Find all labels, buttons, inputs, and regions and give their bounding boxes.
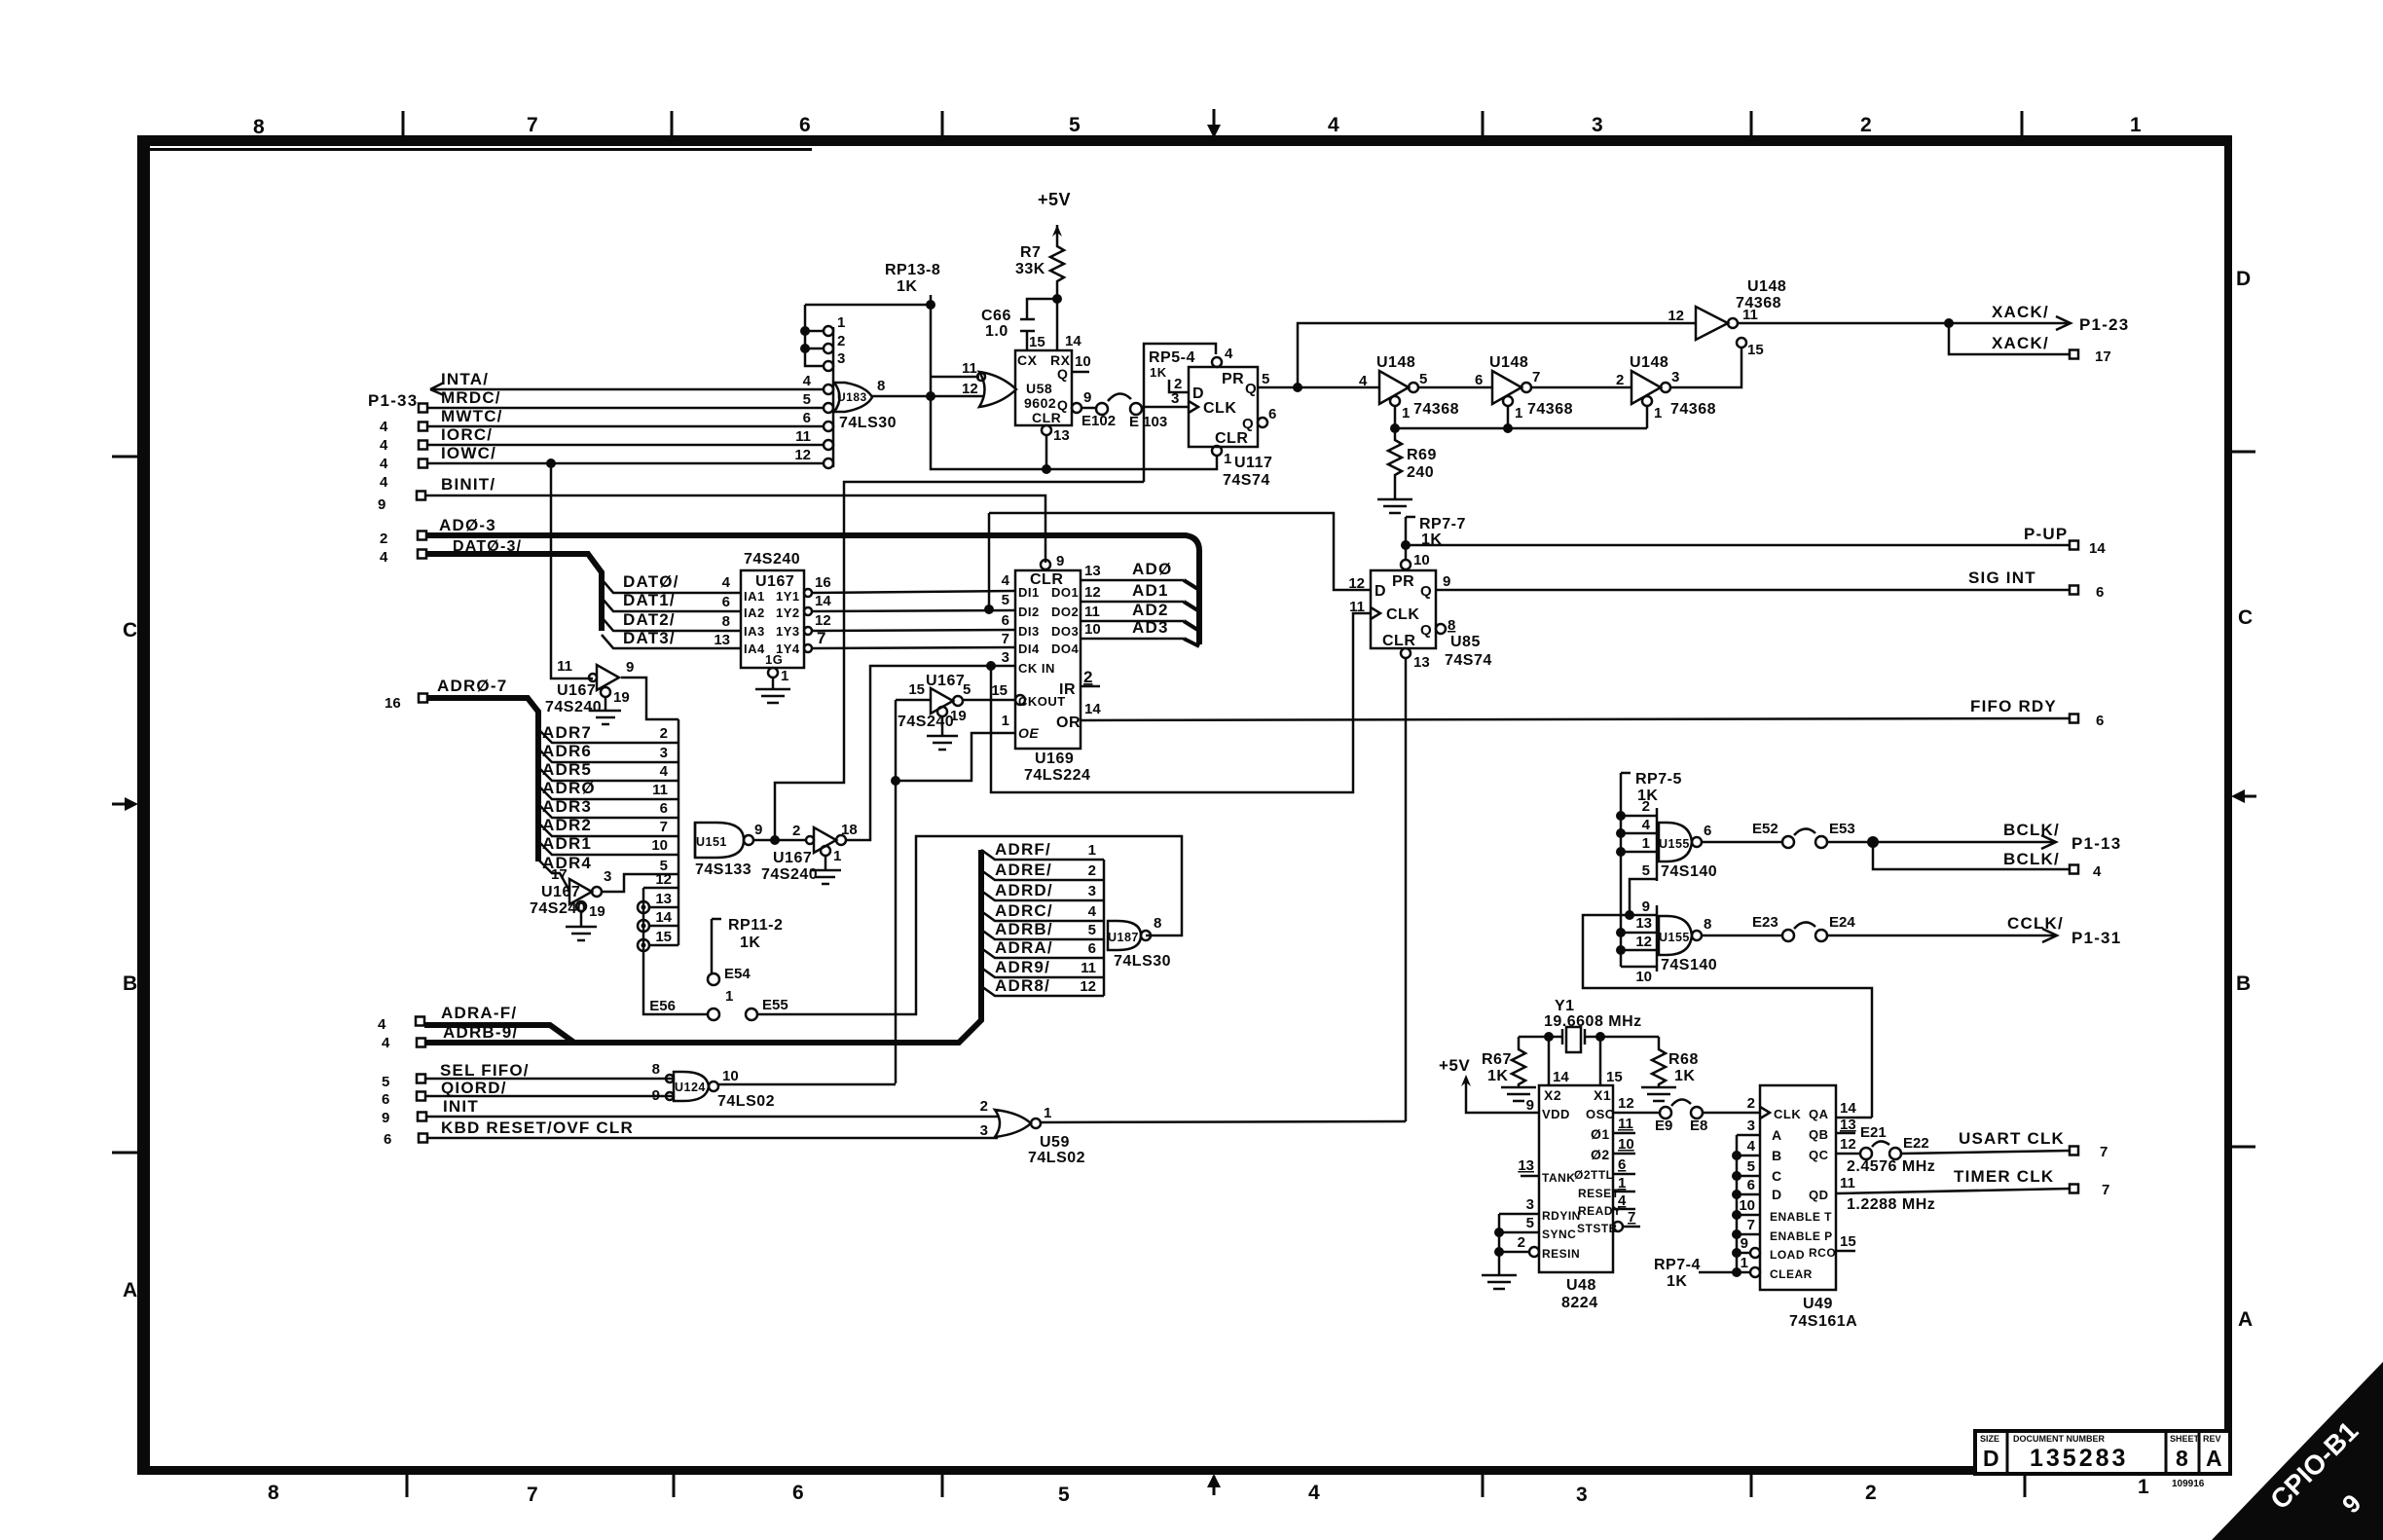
- svg-text:E55: E55: [762, 997, 788, 1013]
- AD diagonal joins to bus: [1184, 580, 1199, 646]
- svg-text:8: 8: [722, 613, 730, 630]
- svg-text:C: C: [123, 619, 137, 642]
- zone tick top 2/1: [2021, 111, 2024, 136]
- svg-text:15: 15: [1029, 334, 1045, 350]
- svg-text:6: 6: [1088, 940, 1096, 957]
- svg-text:STSTB: STSTB: [1577, 1222, 1618, 1235]
- svg-text:3: 3: [837, 350, 845, 367]
- wire E103 to U117 CLK: [1142, 406, 1189, 409]
- svg-text:DI2: DI2: [1018, 605, 1040, 619]
- ground U48: [1482, 1275, 1517, 1289]
- svg-text:14: 14: [655, 909, 672, 926]
- svg-text:4: 4: [1328, 114, 1339, 136]
- jumper arc: [1794, 828, 1815, 835]
- stub pin 10: [1621, 966, 1657, 969]
- svg-text:RP7-7: RP7-7: [1419, 516, 1466, 532]
- svg-text:3: 3: [1576, 1484, 1588, 1506]
- svg-text:10: 10: [1075, 353, 1091, 370]
- gate U187 74LS30: [1108, 921, 1141, 950]
- svg-text:ADR1: ADR1: [542, 834, 592, 853]
- svg-text:U167: U167: [773, 850, 812, 866]
- svg-text:X1: X1: [1594, 1087, 1611, 1103]
- inverter U167 (sel): [814, 827, 836, 853]
- svg-text:2: 2: [1642, 798, 1650, 815]
- wire SEL FIFO to U124 pin8: [425, 1078, 674, 1081]
- svg-text:E8: E8: [1690, 1118, 1707, 1134]
- svg-text:D: D: [2236, 268, 2251, 290]
- svg-text:4: 4: [1618, 1192, 1627, 1209]
- corner triangle black: [2212, 1362, 2383, 1540]
- zone tick bottom 3/2: [1750, 1474, 1753, 1497]
- svg-text:U58: U58: [1026, 381, 1052, 396]
- svg-text:15: 15: [655, 929, 672, 945]
- svg-text:ADRB-9/: ADRB-9/: [443, 1023, 518, 1042]
- jumper E55: [746, 1008, 757, 1020]
- TANK pin 13: [1521, 1175, 1539, 1178]
- zone arrow left center: [112, 803, 128, 806]
- svg-text:8: 8: [253, 116, 265, 138]
- svg-text:6: 6: [384, 1131, 391, 1148]
- SYNC pin 5: [1499, 1231, 1539, 1234]
- svg-text:AD1: AD1: [1132, 581, 1169, 600]
- gate U59 74LS02: [995, 1110, 1031, 1137]
- svg-text:BCLK/: BCLK/: [2003, 821, 2060, 839]
- zone tick top 7/6: [671, 111, 674, 136]
- jumper E21: [1860, 1148, 1872, 1159]
- svg-text:U48: U48: [1566, 1277, 1596, 1294]
- svg-text:P1-23: P1-23: [2079, 315, 2129, 334]
- U117 CLR pin 1: [1212, 446, 1222, 456]
- stub pin 4: [1621, 832, 1657, 835]
- border frame top: [137, 135, 2231, 146]
- svg-text:15: 15: [908, 681, 925, 698]
- wire IOWC branch down to U167 inverter input: [551, 463, 593, 678]
- svg-text:U167: U167: [926, 673, 965, 689]
- svg-text:IA4: IA4: [744, 642, 765, 656]
- svg-text:DAT1/: DAT1/: [623, 591, 676, 609]
- svg-text:2: 2: [1860, 114, 1872, 136]
- svg-text:R69: R69: [1407, 447, 1437, 463]
- svg-text:U148: U148: [1630, 354, 1668, 371]
- svg-text:3: 3: [1088, 883, 1096, 899]
- svg-text:9: 9: [1526, 1097, 1534, 1114]
- zone tick top 4/3: [1482, 111, 1485, 136]
- U167 outputs to U169: [804, 589, 812, 597]
- svg-text:CLK: CLK: [1203, 400, 1236, 417]
- wire OE feed from U124: [896, 700, 1015, 1083]
- svg-text:10: 10: [1739, 1197, 1755, 1214]
- svg-text:P-UP: P-UP: [2024, 525, 2068, 543]
- svg-text:5: 5: [1058, 1484, 1070, 1506]
- wire CLK feed: [991, 613, 1371, 792]
- jumper E53: [1815, 836, 1827, 848]
- svg-text:IA2: IA2: [744, 605, 765, 620]
- svg-text:6: 6: [1475, 372, 1483, 388]
- svg-text:IR: IR: [1059, 681, 1076, 698]
- svg-text:15: 15: [1747, 342, 1764, 358]
- svg-text:4: 4: [1642, 817, 1651, 833]
- wire E55 to U187 out: [757, 836, 1182, 1014]
- title block outline: [1975, 1431, 2230, 1474]
- svg-text:8: 8: [1154, 915, 1161, 932]
- svg-text:5: 5: [1002, 592, 1009, 608]
- jumper E23: [1782, 930, 1794, 941]
- U58 CLR pin 13: [1042, 425, 1051, 435]
- svg-text:D: D: [1772, 1187, 1782, 1202]
- svg-text:DAT3/: DAT3/: [623, 629, 676, 647]
- svg-text:8: 8: [877, 378, 885, 394]
- wire to U58 pin 14: [1056, 299, 1059, 350]
- wire ckout: [963, 699, 1015, 702]
- svg-text:4: 4: [380, 456, 388, 472]
- wire Q9 to E102: [1082, 407, 1097, 410]
- stub CLEAR pin 1: [1750, 1267, 1760, 1277]
- svg-text:5: 5: [1747, 1158, 1755, 1175]
- U85 CLR pin 13: [1401, 648, 1411, 658]
- svg-text:DO4: DO4: [1051, 642, 1080, 656]
- svg-text:74S140: 74S140: [1661, 863, 1717, 880]
- svg-text:ADRD/: ADRD/: [995, 881, 1053, 899]
- zone tick left D/C: [112, 456, 138, 458]
- svg-text:E21: E21: [1860, 1124, 1887, 1141]
- svg-text:74S240: 74S240: [545, 699, 602, 715]
- svg-text:1Y2: 1Y2: [776, 605, 800, 620]
- svg-text:10: 10: [1413, 552, 1430, 568]
- svg-text:MRDC/: MRDC/: [441, 388, 501, 407]
- svg-text:3: 3: [604, 868, 611, 885]
- svg-text:U151: U151: [696, 835, 727, 849]
- svg-text:74LS224: 74LS224: [1024, 767, 1090, 784]
- svg-text:+5V: +5V: [1038, 190, 1071, 209]
- svg-text:6: 6: [799, 114, 811, 136]
- svg-text:9: 9: [1443, 573, 1450, 590]
- svg-text:Q: Q: [1420, 583, 1432, 600]
- svg-text:9: 9: [378, 496, 385, 513]
- svg-text:74S133: 74S133: [695, 862, 752, 878]
- stub B pin 4: [1737, 1155, 1760, 1157]
- svg-text:CLR: CLR: [1215, 430, 1248, 447]
- svg-text:74S74: 74S74: [1445, 652, 1492, 669]
- gate U155 a: [1659, 823, 1692, 862]
- wire IORC to U183 pin11: [427, 444, 823, 447]
- svg-text:U155: U155: [1659, 837, 1690, 851]
- bus ADRB-9 thick: [425, 850, 981, 1043]
- border frame left: [137, 135, 150, 1475]
- svg-text:ENABLE P: ENABLE P: [1770, 1229, 1833, 1243]
- svg-text:18: 18: [841, 822, 858, 838]
- junction CKIN: [986, 661, 996, 671]
- svg-text:QD: QD: [1809, 1188, 1829, 1202]
- svg-text:Q: Q: [1420, 622, 1432, 639]
- wire 3 to bubble15: [1670, 348, 1741, 387]
- svg-text:5: 5: [1262, 371, 1269, 387]
- svg-text:7: 7: [527, 114, 538, 136]
- gate U155 a input rail: [1656, 808, 1659, 881]
- svg-text:240: 240: [1407, 464, 1434, 481]
- svg-text:BINIT/: BINIT/: [441, 475, 495, 494]
- svg-text:AD2: AD2: [1132, 601, 1169, 619]
- svg-text:109916: 109916: [2172, 1479, 2205, 1489]
- svg-text:C: C: [2238, 606, 2253, 629]
- svg-text:ADR5: ADR5: [542, 760, 592, 779]
- svg-text:DI1: DI1: [1018, 585, 1040, 600]
- fifo U169 74LS224: [1015, 570, 1081, 749]
- svg-text:13: 13: [1053, 427, 1070, 444]
- svg-text:6: 6: [792, 1482, 804, 1504]
- svg-text:CLR: CLR: [1032, 410, 1061, 425]
- wire RP13-8 rail to pins123: [805, 304, 931, 307]
- svg-text:15: 15: [1840, 1233, 1856, 1250]
- svg-text:SHEET: SHEET: [2170, 1434, 2200, 1444]
- svg-text:9: 9: [1083, 389, 1091, 406]
- svg-text:12: 12: [1618, 1095, 1634, 1112]
- stub LOAD pin 9: [1750, 1248, 1760, 1258]
- one-shot U58 9602: [1015, 350, 1072, 425]
- svg-text:5: 5: [1419, 371, 1427, 387]
- svg-text:4: 4: [380, 419, 388, 435]
- U169 IR pin 2: [1081, 685, 1100, 688]
- svg-text:1: 1: [1044, 1105, 1051, 1121]
- svg-text:15: 15: [991, 682, 1008, 699]
- svg-text:1: 1: [1088, 842, 1096, 859]
- svg-text:CLEAR: CLEAR: [1770, 1267, 1813, 1281]
- svg-text:6: 6: [803, 410, 811, 426]
- stub D pin 6: [1737, 1193, 1760, 1196]
- svg-text:Q: Q: [1242, 416, 1254, 432]
- wire U151 net to RP5-4: [775, 482, 1144, 840]
- svg-text:USART CLK: USART CLK: [1959, 1129, 2065, 1148]
- svg-text:74S240: 74S240: [744, 551, 800, 568]
- node XACK/ 17: [1949, 323, 2070, 354]
- wire U151 out to inverter: [753, 839, 806, 842]
- border frame right: [2224, 135, 2232, 1475]
- svg-text:DATØ/: DATØ/: [623, 572, 679, 591]
- wire KBD RESET to U59 pin3: [427, 1137, 998, 1140]
- svg-text:6: 6: [1747, 1177, 1755, 1193]
- svg-text:12: 12: [794, 447, 811, 463]
- svg-text:RP7-5: RP7-5: [1635, 771, 1682, 788]
- title block divider docnum/sheet: [2165, 1431, 2168, 1474]
- svg-text:2: 2: [1518, 1234, 1525, 1251]
- wire D feed: [989, 513, 1371, 590]
- svg-text:U167: U167: [557, 682, 596, 699]
- svg-text:C66: C66: [981, 308, 1011, 324]
- resistor RP11-2 1K: [712, 919, 721, 973]
- wire to U58 gate input 11: [931, 376, 979, 379]
- U117 Qbar pin 6: [1258, 418, 1267, 427]
- svg-text:Q: Q: [1057, 366, 1068, 382]
- gate U124 74LS02: [674, 1072, 709, 1101]
- inverter U148 6-7: [1492, 371, 1521, 404]
- svg-text:MWTC/: MWTC/: [441, 407, 503, 425]
- wire 13/14/15 rail to E56: [643, 888, 708, 1014]
- svg-text:XACK/: XACK/: [1992, 303, 2049, 321]
- svg-text:1: 1: [833, 848, 841, 864]
- wire 7 to 2: [1531, 386, 1631, 389]
- svg-text:P1-31: P1-31: [2071, 929, 2121, 947]
- svg-text:RP13-8: RP13-8: [885, 262, 940, 278]
- junction XACK: [1944, 318, 1954, 328]
- svg-text:D: D: [1983, 1446, 1999, 1471]
- U48 phi1 pin 11: [1613, 1132, 1635, 1135]
- U117 PR pin 4: [1212, 357, 1222, 367]
- junction pin9: [1625, 910, 1634, 920]
- svg-text:DO1: DO1: [1051, 585, 1079, 600]
- svg-text:P1-13: P1-13: [2071, 834, 2121, 853]
- svg-text:U183: U183: [837, 390, 867, 404]
- junction BCLK: [1867, 836, 1879, 848]
- node USART CLK: [1901, 1151, 2070, 1154]
- pin 10 stub Q: [1072, 371, 1089, 374]
- svg-text:2: 2: [1083, 668, 1092, 686]
- junction Q5 to top line: [1293, 383, 1302, 392]
- svg-text:16: 16: [385, 695, 401, 712]
- jumper E56: [708, 1008, 719, 1020]
- svg-text:DI3: DI3: [1018, 624, 1040, 639]
- svg-text:74368: 74368: [1670, 401, 1716, 418]
- svg-text:12: 12: [1840, 1136, 1856, 1153]
- svg-text:12: 12: [1668, 308, 1684, 324]
- svg-text:SIG INT: SIG INT: [1968, 568, 2036, 587]
- jumper arc: [1671, 1099, 1691, 1106]
- bus DAT0-3 thick: [426, 554, 602, 631]
- jumper arc E102-E103: [1108, 393, 1131, 401]
- svg-text:6: 6: [1704, 823, 1711, 839]
- jumper E22: [1889, 1148, 1901, 1159]
- svg-text:1Y1: 1Y1: [776, 589, 800, 604]
- svg-text:E 103: E 103: [1129, 414, 1167, 430]
- svg-text:3: 3: [660, 745, 668, 761]
- svg-text:11: 11: [1084, 604, 1100, 620]
- U49 QC pin 12: [1836, 1153, 1860, 1155]
- svg-text:8: 8: [268, 1482, 279, 1504]
- svg-text:17: 17: [2095, 348, 2111, 365]
- svg-text:QB: QB: [1809, 1127, 1829, 1142]
- svg-text:4: 4: [1002, 572, 1010, 589]
- zone tick top 3/2: [1750, 111, 1753, 136]
- svg-text:14: 14: [2089, 540, 2106, 557]
- zone tick bottom 6/5: [941, 1474, 944, 1497]
- svg-text:U49: U49: [1803, 1296, 1833, 1312]
- svg-text:U148: U148: [1376, 354, 1415, 371]
- svg-text:6: 6: [722, 594, 730, 610]
- svg-text:DI4: DI4: [1018, 642, 1040, 656]
- title block divider sheet/rev: [2198, 1431, 2201, 1474]
- svg-text:74S161A: 74S161A: [1789, 1313, 1857, 1330]
- svg-text:7: 7: [1532, 369, 1540, 385]
- svg-text:2: 2: [1616, 372, 1624, 388]
- gate U58 input OR: [979, 372, 1016, 407]
- svg-text:U187: U187: [1108, 931, 1139, 944]
- svg-text:1: 1: [1618, 1175, 1626, 1192]
- zone tick bottom 8/7: [406, 1474, 409, 1497]
- junction DI2: [984, 605, 994, 614]
- svg-text:A: A: [1772, 1127, 1782, 1143]
- svg-text:OSC: OSC: [1586, 1107, 1615, 1121]
- wire to E52: [1702, 841, 1782, 844]
- svg-text:74368: 74368: [1527, 401, 1573, 418]
- junction CLR net: [1042, 464, 1051, 474]
- U49 RCO pin 15: [1836, 1250, 1855, 1253]
- svg-text:E24: E24: [1829, 914, 1855, 931]
- svg-text:9: 9: [1642, 898, 1650, 915]
- stub pin 5: [1630, 879, 1657, 915]
- zone tick bottom 4/3: [1482, 1474, 1485, 1497]
- svg-text:13: 13: [1518, 1157, 1534, 1174]
- svg-text:6: 6: [382, 1091, 389, 1108]
- svg-text:74LS02: 74LS02: [717, 1093, 775, 1110]
- U117 D pin 2: [1169, 380, 1189, 392]
- svg-text:4: 4: [660, 763, 669, 780]
- svg-text:6: 6: [1002, 612, 1009, 629]
- svg-text:DO3: DO3: [1051, 624, 1079, 639]
- svg-text:Q: Q: [1245, 381, 1257, 397]
- svg-text:QA: QA: [1809, 1107, 1829, 1121]
- stub A pin 3: [1737, 1134, 1760, 1137]
- svg-text:1.0: 1.0: [985, 323, 1008, 340]
- resistor R69 240: [1388, 428, 1402, 492]
- U183 input bracket pins 1,2,3: [805, 305, 824, 366]
- svg-text:X2: X2: [1544, 1087, 1561, 1103]
- svg-text:2: 2: [1747, 1095, 1755, 1112]
- svg-text:1: 1: [781, 668, 788, 684]
- svg-text:9: 9: [754, 822, 762, 838]
- svg-text:6: 6: [2096, 713, 2104, 729]
- svg-text:U155: U155: [1659, 931, 1690, 944]
- svg-text:11: 11: [557, 658, 572, 675]
- svg-text:1G: 1G: [765, 652, 783, 667]
- svg-text:ADØ-3: ADØ-3: [439, 516, 496, 534]
- svg-text:12: 12: [815, 612, 831, 629]
- svg-text:RESET: RESET: [1578, 1187, 1620, 1200]
- svg-text:14: 14: [1840, 1100, 1856, 1117]
- U49 QB pin 13: [1836, 1132, 1855, 1135]
- svg-text:1: 1: [2130, 114, 2142, 136]
- zone tick top 8/7: [402, 111, 405, 136]
- svg-text:U148: U148: [1489, 354, 1528, 371]
- svg-text:4: 4: [1747, 1138, 1756, 1155]
- svg-text:4: 4: [382, 1035, 390, 1051]
- svg-text:3: 3: [1671, 369, 1679, 385]
- junction pin1 rail b: [1503, 423, 1513, 433]
- svg-text:9: 9: [382, 1110, 389, 1126]
- svg-text:B: B: [2236, 972, 2251, 995]
- svg-text:2.4576 MHz: 2.4576 MHz: [1847, 1158, 1935, 1175]
- svg-text:2: 2: [1865, 1482, 1877, 1504]
- U169 OR pin 14 / FIFO RDY: [1081, 718, 2070, 720]
- svg-text:Y1: Y1: [1555, 998, 1575, 1014]
- svg-text:TIMER CLK: TIMER CLK: [1954, 1167, 2054, 1186]
- svg-text:1: 1: [1402, 405, 1410, 422]
- svg-text:14: 14: [815, 593, 831, 609]
- svg-text:3: 3: [1002, 649, 1009, 666]
- svg-text:8: 8: [2176, 1446, 2188, 1471]
- svg-text:7: 7: [2102, 1182, 2109, 1198]
- svg-text:1: 1: [1224, 451, 1231, 467]
- gate U155 b input rail: [1656, 905, 1659, 972]
- bus ADRA-F thick: [424, 1025, 574, 1043]
- svg-text:RESIN: RESIN: [1542, 1247, 1580, 1261]
- flip-flop U85 74S74: [1371, 570, 1436, 648]
- jumper posts 13/14/15: [638, 901, 649, 913]
- svg-text:DO2: DO2: [1051, 605, 1079, 619]
- zone tick left B/A: [112, 1152, 138, 1155]
- svg-text:3: 3: [1526, 1196, 1534, 1213]
- junction U183 out / RP13-8: [926, 391, 935, 401]
- junction pin1: [800, 326, 810, 336]
- svg-text:A: A: [123, 1279, 137, 1302]
- svg-text:14: 14: [1065, 333, 1082, 349]
